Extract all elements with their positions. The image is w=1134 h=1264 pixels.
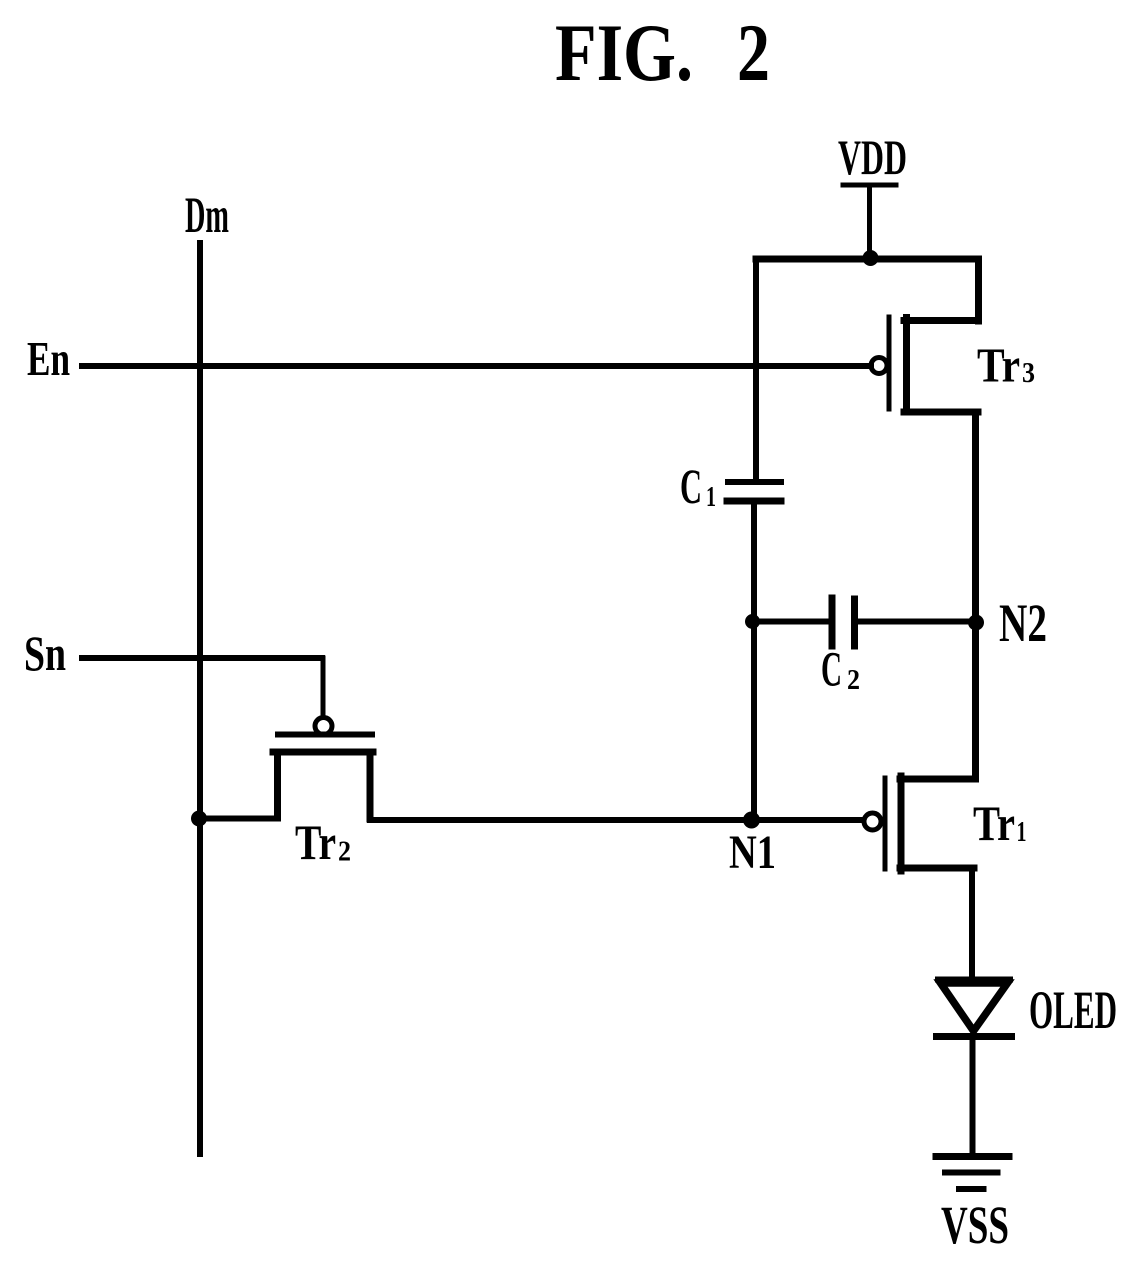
- svg-text:1: 1: [1017, 817, 1027, 848]
- svg-text:OLED: OLED: [1029, 980, 1117, 1040]
- svg-text:VSS: VSS: [941, 1195, 1009, 1255]
- svg-text:FIG.: FIG.: [555, 7, 693, 98]
- svg-text:N2: N2: [999, 593, 1047, 653]
- svg-text:C: C: [680, 458, 702, 514]
- svg-text:Sn: Sn: [24, 625, 66, 681]
- svg-text:N1: N1: [729, 826, 776, 879]
- svg-text:En: En: [27, 331, 70, 386]
- svg-text:3: 3: [1022, 358, 1035, 389]
- svg-text:Tr: Tr: [977, 338, 1020, 393]
- svg-text:VDD: VDD: [838, 129, 907, 185]
- svg-text:Dm: Dm: [185, 188, 229, 244]
- svg-text:2: 2: [338, 837, 351, 868]
- svg-text:Tr: Tr: [973, 795, 1015, 851]
- svg-text:2: 2: [737, 7, 770, 98]
- svg-text:C: C: [821, 641, 842, 697]
- svg-text:2: 2: [847, 665, 860, 696]
- svg-text:Tr: Tr: [295, 814, 336, 870]
- svg-text:1: 1: [706, 482, 716, 513]
